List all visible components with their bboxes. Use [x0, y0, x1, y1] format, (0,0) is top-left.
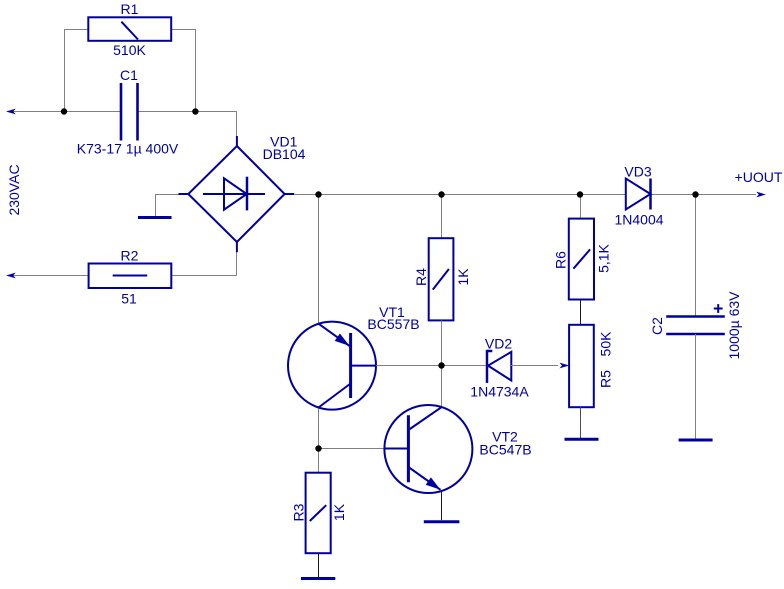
- wire: C2 to ground: [695, 334, 697, 439]
- bridge rectifier VD1: [178, 134, 305, 253]
- wire: R3 to ground: [318, 553, 320, 577]
- wire: top AC line left segment: [13, 112, 237, 139]
- svg-text:R2: R2: [121, 248, 139, 264]
- wire: rail to C2: [695, 195, 697, 317]
- transistor VT2 (BC547B, NPN): [384, 405, 531, 493]
- output arrow: [756, 192, 766, 198]
- svg-text:R1: R1: [121, 1, 139, 17]
- node B (top-right junction): [192, 108, 198, 114]
- svg-text:51: 51: [121, 291, 137, 307]
- svg-text:VD3: VD3: [624, 164, 651, 180]
- ground (C2): [679, 439, 713, 442]
- svg-text:BC547B: BC547B: [479, 442, 531, 458]
- svg-text:1000µ 63V: 1000µ 63V: [726, 291, 742, 360]
- ground (bridge input): [138, 216, 172, 219]
- svg-text:1N4004: 1N4004: [614, 212, 663, 228]
- zener diode VD2: [442, 336, 530, 400]
- svg-text:R4: R4: [413, 268, 429, 286]
- potentiometer R5: [569, 325, 613, 407]
- ground (R3): [301, 577, 335, 580]
- capacitor C2 (electrolytic): [649, 291, 742, 360]
- wire: R5 to ground: [580, 407, 582, 438]
- svg-text:R6: R6: [553, 251, 569, 269]
- svg-text:1K: 1K: [455, 268, 471, 286]
- wire: R1 branch: [64, 30, 196, 112]
- wire: node to VT2 collector: [441, 366, 443, 407]
- node: rail-R6 junction: [577, 191, 583, 197]
- svg-text:BC557B: BC557B: [367, 316, 419, 332]
- node: rail-R4 junction: [438, 191, 444, 197]
- wire: VT1 collector to node: [318, 408, 320, 449]
- wire: VT1 base to node: [376, 365, 442, 367]
- svg-text:1K: 1K: [331, 503, 347, 521]
- svg-text:50K: 50K: [598, 331, 614, 357]
- ground (R5): [565, 438, 599, 441]
- wire: VT2 emitter to ground: [441, 491, 443, 520]
- wire: node to VT2 base: [319, 448, 385, 450]
- wire: R2 line: [13, 250, 237, 276]
- transistor VT1 (BC557B, PNP): [288, 304, 420, 410]
- wire: main positive rail: [294, 194, 756, 196]
- wire: VD2 to R5 wiper: [511, 365, 558, 367]
- wire: rail to R4: [441, 195, 443, 239]
- svg-text:C2: C2: [649, 317, 665, 335]
- AC input arrow top: [6, 109, 16, 115]
- wire: bridge left to ground: [155, 195, 178, 217]
- svg-text:R5: R5: [598, 370, 614, 388]
- svg-text:VD2: VD2: [485, 336, 512, 352]
- capacitor C1: [77, 67, 179, 157]
- resistor R4: [413, 238, 471, 320]
- ground (VT2 emitter): [424, 520, 460, 523]
- node: rail-VT1 junction: [315, 191, 321, 197]
- svg-text:5,1K: 5,1K: [596, 243, 612, 272]
- wire: node to R3: [318, 449, 320, 473]
- svg-text:R3: R3: [291, 503, 307, 521]
- resistor R2: [89, 248, 172, 307]
- wire: R6 to R5: [580, 300, 582, 325]
- svg-text:510K: 510K: [113, 42, 146, 58]
- wire: rail to R6: [580, 195, 582, 219]
- node: rail-C2 junction: [692, 191, 698, 197]
- wiper arrow into R5: [559, 363, 569, 369]
- svg-text:DB104: DB104: [263, 146, 306, 162]
- AC input arrow bottom: [6, 273, 16, 279]
- svg-text:+UOUT: +UOUT: [735, 169, 783, 185]
- node: VT1 collector / VT2 base / R3 junction: [315, 445, 321, 451]
- svg-text:230VAC: 230VAC: [6, 164, 22, 215]
- resistor R3: [291, 473, 348, 554]
- svg-text:K73-17 1µ 400V: K73-17 1µ 400V: [77, 141, 179, 157]
- svg-text:C1: C1: [120, 67, 138, 83]
- diode VD3: [614, 164, 663, 228]
- wire: R4 to VD2 node: [441, 320, 443, 365]
- resistor R6: [553, 219, 612, 300]
- wire: rail to VT1 emitter: [318, 195, 320, 324]
- resistor R1: [88, 1, 171, 58]
- node A (top-left junction): [61, 108, 67, 114]
- node: R4/VD2/VT1-base/VT2-collector junction: [438, 362, 444, 368]
- svg-text:1N4734A: 1N4734A: [470, 384, 529, 400]
